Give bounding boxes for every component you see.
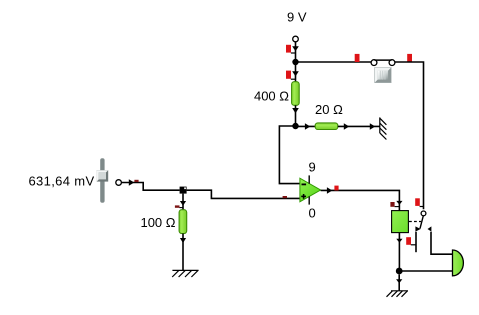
current indicator red bar bbox=[334, 186, 338, 191]
op-amp U1 bbox=[300, 178, 321, 202]
current arrow bbox=[370, 123, 375, 130]
op-amp power pins bbox=[308, 175, 310, 204]
speaker LS1 bbox=[453, 250, 464, 276]
svg-text:631,64 mV: 631,64 mV bbox=[28, 174, 94, 189]
wire to ground bbox=[398, 274, 400, 290]
current arrow bbox=[292, 71, 299, 76]
node junction top bbox=[292, 59, 298, 65]
wire bbox=[296, 125, 316, 127]
current arrow bbox=[129, 179, 134, 185]
current indicator small dark bar bbox=[283, 196, 287, 198]
wire left contact stub bbox=[415, 232, 417, 252]
relay common pivot bbox=[421, 211, 426, 216]
svg-text:0: 0 bbox=[309, 206, 316, 221]
resistor 400 ohm bbox=[292, 82, 300, 106]
relay coil bbox=[392, 211, 409, 233]
resistor 100 ohm bbox=[179, 210, 187, 234]
current arrow bbox=[305, 123, 310, 130]
wire right contact to speaker bbox=[431, 232, 453, 254]
wire bbox=[182, 234, 184, 271]
svg-text:9: 9 bbox=[309, 160, 316, 175]
svg-text:400 Ω: 400 Ω bbox=[254, 89, 289, 104]
source terminal bbox=[116, 180, 122, 186]
wire bbox=[182, 194, 184, 210]
ground bottom right bbox=[387, 291, 409, 297]
current indicator small dark bar bbox=[134, 180, 138, 182]
node junction bottom bbox=[396, 268, 403, 275]
current indicator red bar bbox=[406, 237, 416, 245]
current indicator red bar bbox=[355, 54, 360, 62]
wire to op-amp non-inverting input bbox=[187, 190, 300, 198]
current indicator red bar bbox=[286, 45, 296, 53]
relay link dashed bbox=[409, 221, 421, 223]
wire bbox=[338, 125, 380, 127]
wire coil bottom bbox=[398, 233, 400, 268]
switch button actuator bbox=[374, 67, 391, 83]
node junction square bbox=[180, 187, 187, 194]
wire bbox=[121, 183, 179, 191]
current arrow bbox=[292, 46, 299, 51]
relay arm bbox=[420, 216, 423, 229]
wire bbox=[296, 61, 372, 63]
node junction mid bbox=[292, 123, 298, 129]
svg-text:100 Ω: 100 Ω bbox=[140, 215, 175, 230]
current indicator red bar bbox=[415, 198, 423, 206]
current indicator red bar bbox=[407, 54, 412, 62]
current arrow bbox=[344, 123, 349, 130]
current arrow bbox=[396, 239, 402, 243]
wire to op-amp inverting input bbox=[279, 126, 299, 184]
current arrow bbox=[396, 279, 402, 283]
current indicator small dark bar bbox=[390, 202, 399, 207]
svg-text:9 V: 9 V bbox=[287, 10, 307, 25]
current arrow bbox=[180, 201, 186, 206]
ground right bbox=[380, 117, 387, 139]
op-amp plus sign bbox=[301, 194, 306, 199]
slider knob bbox=[97, 170, 109, 181]
wire op-amp output bbox=[321, 190, 400, 210]
svg-text:20 Ω: 20 Ω bbox=[315, 102, 343, 117]
current indicator small dark bar bbox=[175, 205, 183, 207]
wire to speaker bottom bbox=[399, 270, 452, 272]
current indicator red bar bbox=[286, 71, 296, 80]
resistor 20 ohm bbox=[315, 123, 338, 130]
current arrow bbox=[327, 187, 332, 194]
wire bbox=[295, 42, 297, 59]
current arrow bbox=[292, 108, 299, 113]
op-amp minus sign bbox=[302, 183, 307, 185]
relay contact right bbox=[428, 226, 432, 231]
relay contact left bbox=[415, 226, 420, 231]
current arrow bbox=[396, 201, 402, 205]
wire bbox=[295, 105, 297, 123]
battery terminal bbox=[293, 36, 299, 42]
wire bbox=[295, 65, 297, 82]
current arrow bbox=[180, 238, 186, 243]
ground left bbox=[172, 270, 198, 277]
wire bbox=[395, 62, 424, 209]
switch S1 contact bbox=[371, 60, 395, 66]
slider track bbox=[100, 158, 104, 203]
